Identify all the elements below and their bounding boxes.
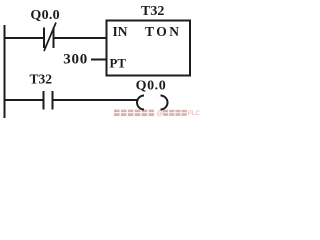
svg-text:300: 300 — [63, 52, 88, 68]
watermark — [114, 110, 200, 118]
wire rung1 right segment to timer box — [54, 37, 106, 39]
svg-text:Q0.0: Q0.0 — [30, 8, 60, 23]
left power rail — [4, 25, 6, 118]
timer box U1 T32 TON outline — [107, 21, 191, 76]
svg-text:T32: T32 — [30, 72, 53, 87]
wire rung2 right segment to coil — [54, 99, 139, 101]
coil Q0.0 left arc — [137, 96, 144, 110]
svg-text:PT: PT — [110, 57, 127, 71]
wire PT input segment — [91, 59, 106, 61]
wire rung1 left segment — [4, 37, 43, 39]
coil Q0.0 right arc — [161, 96, 168, 110]
contact T32 right bar — [52, 91, 54, 110]
contact T32 left bar — [43, 91, 45, 110]
contact Q0.0 left bar — [43, 28, 45, 49]
contact Q0.0 right bar — [53, 28, 55, 49]
svg-text:IN: IN — [113, 24, 128, 39]
wire rung2 left segment — [4, 99, 43, 101]
svg-text:PLC: PLC — [188, 110, 201, 117]
svg-text:TON: TON — [145, 24, 182, 39]
svg-text:Q0.0: Q0.0 — [136, 79, 167, 94]
svg-text:@: @ — [156, 110, 163, 117]
svg-text:T32: T32 — [141, 4, 164, 19]
contact Q0.0 NC slash — [44, 23, 56, 52]
